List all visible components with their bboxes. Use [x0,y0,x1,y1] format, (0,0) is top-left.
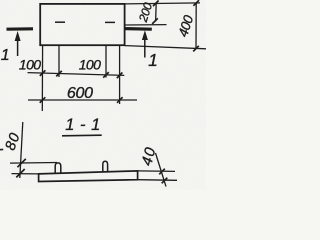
extension line left (plan bottom) [41,46,43,111]
section cut mark right [124,27,152,31]
dim line 600 [28,99,137,101]
dim line 40 [156,153,167,187]
dim line 200 [155,3,158,21]
dim line 100/100 [28,73,125,76]
edge artifact left [0,148,3,150]
section cut mark left [7,27,34,31]
anchor tab right [103,161,108,172]
top edge extension line [125,3,200,4]
dim line 400 [195,3,197,49]
extension line dash1 [58,46,60,77]
anchor tab left [55,163,61,174]
bottom edge extension line [125,46,206,49]
plate outline (plan view) [40,4,124,45]
dim 40 extension top [138,170,175,173]
section plate outline [39,171,138,182]
scan grain [0,0,1,1]
section arrow right [144,40,146,58]
extension line dash2 [105,46,107,78]
slot dash right [105,21,115,23]
dim 40 extension bottom [138,179,177,182]
extension line right (plan bottom) [119,45,121,104]
section arrow left [17,40,19,56]
section title underline [62,134,102,137]
extension line at tab level (right of plan) [125,24,167,26]
slot dash left [55,21,65,23]
dim 80 extension top [10,162,57,165]
dim 80 extension bottom [12,173,39,175]
dim line 80 [20,122,23,178]
